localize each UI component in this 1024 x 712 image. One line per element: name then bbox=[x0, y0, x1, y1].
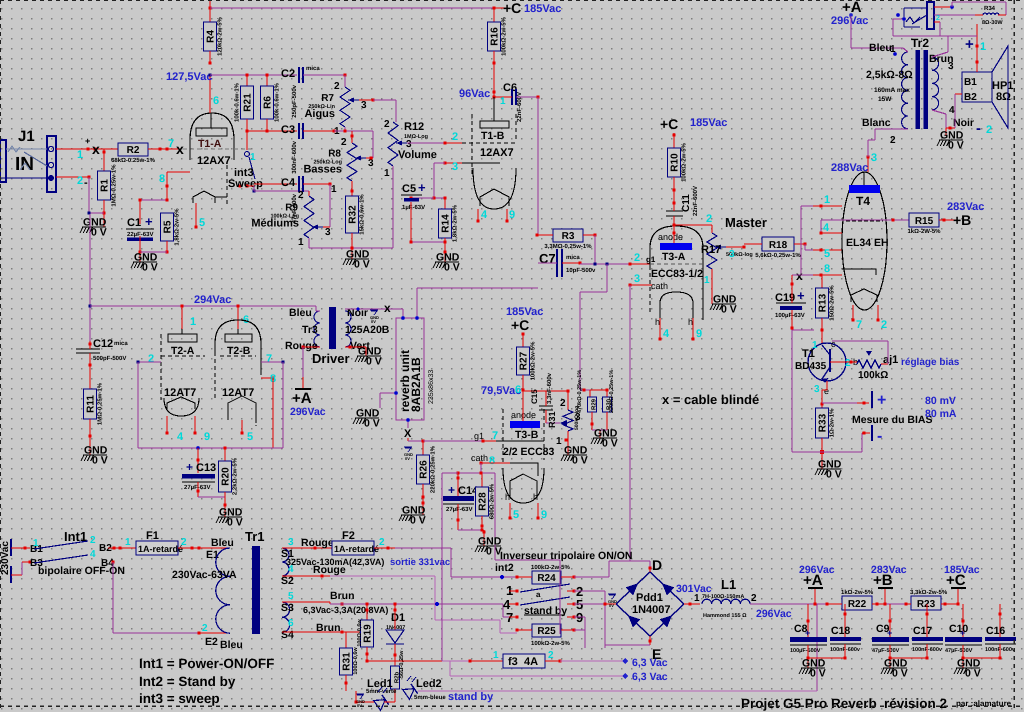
svg-text:L1: L1 bbox=[721, 577, 736, 592]
svg-text:4: 4 bbox=[481, 209, 488, 221]
T3-B heater pins bbox=[509, 503, 511, 518]
wire jack tip bbox=[934, 6, 952, 8]
wire X to reverb in bbox=[402, 309, 404, 318]
svg-text:294Vac: 294Vac bbox=[194, 294, 231, 306]
resistor R16 bbox=[493, 8, 495, 22]
resistor R2b bbox=[391, 666, 400, 689]
wire Brun to speaker bbox=[932, 52, 948, 57]
svg-text:x: x bbox=[176, 141, 184, 157]
wire caps C8 C18 gnd bbox=[808, 657, 845, 659]
winding Tr3-pri bbox=[314, 311, 320, 347]
capacitor C16 bbox=[999, 604, 1001, 637]
svg-text:+A: +A bbox=[292, 390, 312, 407]
svg-text:C18: C18 bbox=[831, 625, 850, 637]
T2-B grid wire pin7 bbox=[261, 361, 283, 363]
svg-text:x: x bbox=[384, 301, 391, 315]
svg-text:2: 2 bbox=[751, 593, 757, 604]
label 6,3 Vac 1 bbox=[622, 658, 628, 664]
svg-text:Rouge: Rouge bbox=[313, 564, 346, 576]
svg-text:100µF-500V: 100µF-500V bbox=[790, 648, 821, 654]
svg-text:3: 3 bbox=[814, 384, 820, 395]
svg-text:15kΩ-0,6w-1%: 15kΩ-0,6w-1% bbox=[359, 194, 366, 235]
svg-text:0 V: 0 V bbox=[965, 668, 981, 680]
svg-text:4: 4 bbox=[823, 222, 830, 234]
svg-text:R16: R16 bbox=[490, 27, 501, 46]
svg-text:R26: R26 bbox=[419, 460, 430, 479]
svg-text:0V: 0V bbox=[609, 603, 614, 608]
resistor R2 bbox=[118, 143, 148, 156]
svg-text:R2: R2 bbox=[127, 145, 140, 156]
wire Rouge to +A bbox=[303, 346, 320, 348]
svg-text:F2: F2 bbox=[342, 530, 355, 542]
svg-text:g1: g1 bbox=[474, 431, 484, 441]
svg-text:stand by: stand by bbox=[448, 691, 494, 703]
svg-text:220kΩ-0,25w-1%: 220kΩ-0,25w-1% bbox=[609, 370, 615, 413]
svg-text:2: 2 bbox=[452, 131, 458, 143]
svg-text:0 V: 0 V bbox=[892, 668, 908, 680]
svg-text:anode: anode bbox=[658, 232, 683, 242]
ground Tr2 bbox=[945, 128, 947, 136]
svg-text:+: + bbox=[85, 136, 90, 146]
wire minus sense bbox=[791, 330, 793, 452]
svg-text:283Vac: 283Vac bbox=[871, 564, 907, 576]
svg-text:R8: R8 bbox=[328, 148, 341, 159]
wire R12 wiper to T1-B bbox=[407, 142, 445, 144]
svg-text:5: 5 bbox=[513, 509, 519, 521]
svg-text:96Vac: 96Vac bbox=[459, 88, 490, 100]
svg-text:0 V: 0 V bbox=[366, 356, 382, 368]
svg-text:22nF-600V: 22nF-600V bbox=[692, 186, 699, 216]
svg-text:Int1 = Power-ON/OFF: Int1 = Power-ON/OFF bbox=[139, 656, 274, 671]
resistor R14 bbox=[439, 209, 452, 238]
wire reverb gnd left bbox=[380, 392, 396, 394]
svg-text:Aigus: Aigus bbox=[304, 108, 335, 120]
svg-text:C7: C7 bbox=[539, 251, 556, 266]
svg-text:C17: C17 bbox=[913, 625, 932, 637]
svg-text:6,3Vac-3,3A(20,8VA): 6,3Vac-3,3A(20,8VA) bbox=[303, 605, 388, 615]
wire B2 to F1 bbox=[108, 547, 136, 549]
svg-text:C4: C4 bbox=[281, 177, 296, 189]
resistor R33 bbox=[816, 408, 829, 438]
svg-text:2: 2 bbox=[334, 81, 340, 92]
wire rail 127V to C2 bbox=[210, 74, 297, 76]
svg-text:C6: C6 bbox=[503, 82, 517, 94]
svg-text:0 V: 0 V bbox=[486, 546, 502, 558]
svg-text:1: 1 bbox=[890, 44, 896, 55]
wire S4 Brun bbox=[282, 631, 342, 633]
speaker HP1 bbox=[962, 72, 992, 102]
svg-text:réglage bias: réglage bias bbox=[901, 357, 960, 368]
resistor R23 bbox=[911, 596, 941, 610]
svg-text:T2-A: T2-A bbox=[171, 345, 195, 357]
wire C3 right bbox=[303, 130, 334, 132]
svg-text:0 V: 0 V bbox=[572, 455, 588, 467]
wire T1-A plate bbox=[209, 75, 211, 113]
wire S1 Rouge to F2 bbox=[282, 547, 332, 549]
svg-text:1: 1 bbox=[331, 184, 337, 195]
svg-text:160mA max: 160mA max bbox=[874, 87, 910, 94]
svg-text:27µF-63V: 27µF-63V bbox=[446, 506, 472, 513]
svg-text:T1-A: T1-A bbox=[198, 138, 222, 150]
svg-text:230Vac-63VA: 230Vac-63VA bbox=[172, 569, 237, 581]
svg-text:0 V: 0 V bbox=[410, 515, 426, 527]
ground gnd-int2 bbox=[477, 545, 501, 547]
wire standby long bbox=[418, 690, 817, 692]
svg-text:Bleu: Bleu bbox=[289, 307, 312, 319]
resistor R34 loop bbox=[951, 2, 953, 7]
triode T3-A bbox=[650, 226, 703, 266]
svg-text:100kΩ-2w-5%: 100kΩ-2w-5% bbox=[531, 564, 570, 571]
svg-text:h: h bbox=[688, 317, 693, 327]
svg-text:+: + bbox=[797, 288, 805, 303]
wire C14 join R28 bbox=[458, 529, 482, 531]
svg-text:1: 1 bbox=[500, 96, 506, 107]
capacitor C17 bbox=[926, 604, 928, 637]
fuse f3 bbox=[367, 660, 442, 662]
wire g3 to cathode bbox=[800, 206, 802, 275]
capacitor C4 bbox=[298, 176, 300, 192]
svg-text:1: 1 bbox=[694, 593, 700, 604]
wire C11 node to Master bbox=[674, 224, 712, 226]
pentode T4 bbox=[842, 172, 887, 310]
svg-text:3: 3 bbox=[729, 249, 735, 260]
svg-text:9: 9 bbox=[696, 328, 702, 340]
capacitor C2 bbox=[298, 67, 300, 83]
T2-A grid wire bbox=[138, 361, 161, 363]
svg-text:-: - bbox=[877, 428, 882, 445]
svg-text:Projet G5 Pro Reverb: Projet G5 Pro Reverb bbox=[741, 696, 877, 711]
svg-text:+C: +C bbox=[511, 317, 529, 333]
svg-text:2,2kΩ-2w-5%: 2,2kΩ-2w-5% bbox=[232, 457, 239, 495]
wire F1 to Tr1 bbox=[178, 547, 230, 549]
svg-text:2: 2 bbox=[181, 537, 187, 548]
resistor R26 bbox=[417, 455, 430, 484]
svg-text:R20: R20 bbox=[221, 467, 232, 486]
ground gnd-C10 bbox=[956, 667, 980, 669]
T1-A grid dashes bbox=[234, 148, 252, 150]
svg-text:R12: R12 bbox=[404, 121, 424, 133]
svg-text:Brun: Brun bbox=[330, 590, 355, 602]
svg-text:R23: R23 bbox=[917, 599, 936, 610]
svg-text:100kΩ-2w-5%: 100kΩ-2w-5% bbox=[531, 640, 570, 647]
svg-text:R25: R25 bbox=[537, 626, 556, 637]
resistor R29 bbox=[580, 389, 590, 391]
resistor R21 bbox=[241, 86, 254, 119]
svg-text:0 V: 0 V bbox=[810, 668, 826, 680]
svg-text:R6: R6 bbox=[263, 96, 274, 109]
svg-text:1: 1 bbox=[190, 316, 196, 328]
T4 cathode line bbox=[842, 269, 876, 275]
resistor R6 bbox=[266, 75, 268, 86]
svg-text:1: 1 bbox=[77, 149, 83, 161]
svg-text:+: + bbox=[805, 628, 810, 638]
svg-text:+B: +B bbox=[953, 212, 971, 228]
svg-text:R5: R5 bbox=[163, 220, 174, 233]
svg-text:1: 1 bbox=[250, 152, 256, 163]
resistor R20 bbox=[224, 448, 226, 461]
wire T4 screen to R15 bbox=[821, 219, 909, 221]
svg-text:g1: g1 bbox=[646, 255, 656, 264]
wire R5 bottom bbox=[166, 241, 168, 252]
wires R29 R30 to gnd bbox=[591, 412, 593, 430]
wire secondary bottom to Noir bbox=[932, 110, 946, 114]
wire int2 to R25 right bbox=[574, 590, 605, 592]
svg-text:8: 8 bbox=[824, 263, 830, 275]
T1-B grid wire bbox=[462, 142, 516, 144]
ground gnd-R33 bbox=[817, 468, 841, 470]
winding Tr2-pri bbox=[902, 52, 908, 129]
ground gnd-R11 bbox=[83, 454, 107, 456]
triode T1-B bbox=[471, 114, 473, 175]
T4 pin4 screen bbox=[820, 220, 822, 233]
potentiometer R9 bbox=[304, 196, 314, 238]
svg-text:470kΩ-0,25w-1%: 470kΩ-0,25w-1% bbox=[577, 370, 583, 413]
svg-text:C13: C13 bbox=[196, 462, 216, 474]
svg-text:Led2: Led2 bbox=[416, 678, 442, 690]
potentiometer R8 bbox=[347, 143, 357, 181]
svg-text:C3: C3 bbox=[281, 124, 295, 136]
svg-text:2: 2 bbox=[379, 537, 385, 548]
svg-text:mica: mica bbox=[566, 254, 580, 261]
svg-text:2: 2 bbox=[90, 535, 96, 546]
speaker + terminal bbox=[976, 24, 978, 72]
svg-text:100k-0.6w-1%: 100k-0.6w-1% bbox=[274, 82, 281, 122]
svg-text:5: 5 bbox=[247, 431, 253, 443]
svg-text:Basses: Basses bbox=[303, 163, 342, 175]
wire caps C9 C17 gnd bbox=[890, 657, 927, 659]
svg-text:+: + bbox=[418, 180, 426, 195]
svg-text:12AX7: 12AX7 bbox=[197, 155, 231, 167]
svg-text:ECC83-1/2: ECC83-1/2 bbox=[651, 268, 703, 280]
resistor R30 bbox=[590, 389, 607, 391]
resistor R20 bbox=[219, 461, 232, 492]
wire aj1 to collector bbox=[881, 363, 888, 365]
svg-text:7: 7 bbox=[168, 138, 174, 150]
svg-text:7: 7 bbox=[492, 430, 498, 442]
node C1 R5 bbox=[140, 199, 167, 201]
svg-text:0 V: 0 V bbox=[948, 140, 964, 152]
svg-text:2: 2 bbox=[548, 650, 554, 661]
svg-text:R33: R33 bbox=[818, 413, 829, 432]
resistor R21 bbox=[246, 75, 248, 86]
triode T2-B bbox=[237, 306, 239, 329]
T1-A side dashed bbox=[226, 165, 228, 205]
wire 294 rail to Bleu bbox=[315, 306, 317, 311]
svg-text:3,3MΩ-0,25w-1%: 3,3MΩ-0,25w-1% bbox=[544, 243, 592, 250]
svg-text:80 mA: 80 mA bbox=[925, 408, 957, 420]
svg-text:1A-retardé: 1A-retardé bbox=[138, 544, 183, 554]
wire reverb bottom out bbox=[407, 420, 409, 428]
svg-text:S2: S2 bbox=[281, 575, 294, 587]
page border bbox=[1013, 0, 1015, 712]
wire 6,3 second bbox=[450, 675, 625, 677]
resistor R25 bbox=[532, 624, 561, 637]
svg-text:12AX7: 12AX7 bbox=[480, 147, 514, 159]
svg-text:Volume: Volume bbox=[398, 149, 437, 161]
svg-text:120kΩ-2w-5%: 120kΩ-2w-5% bbox=[217, 16, 224, 55]
svg-text:1: 1 bbox=[493, 650, 499, 661]
svg-text:100µF-63V: 100µF-63V bbox=[775, 312, 805, 319]
capacitor C3 bbox=[298, 123, 300, 139]
svg-text:100kΩ-2w-5%: 100kΩ-2w-5% bbox=[501, 16, 508, 55]
capacitor C9 bbox=[889, 604, 891, 637]
resistor R18 bbox=[762, 237, 794, 251]
svg-text:2,5kΩ-8Ω: 2,5kΩ-8Ω bbox=[866, 69, 913, 81]
svg-text:S3: S3 bbox=[281, 602, 294, 614]
svg-text:-: - bbox=[976, 120, 981, 137]
svg-text:1: 1 bbox=[298, 237, 304, 248]
svg-text:9: 9 bbox=[204, 431, 210, 443]
ground top of int2 bbox=[483, 530, 485, 546]
svg-text:68kΩ-0.25w-1%: 68kΩ-0.25w-1% bbox=[111, 157, 155, 164]
svg-text:R21: R21 bbox=[243, 93, 254, 112]
svg-text:1: 1 bbox=[812, 340, 818, 351]
T2-B heater pin bbox=[241, 420, 243, 433]
svg-text:Driver: Driver bbox=[312, 351, 350, 366]
svg-text:0V: 0V bbox=[405, 456, 410, 461]
svg-text:6: 6 bbox=[515, 384, 521, 396]
small ground gnd-revb bbox=[404, 446, 412, 448]
svg-text:C11: C11 bbox=[681, 194, 692, 212]
resistor R24 bbox=[532, 571, 561, 584]
svg-text:R32: R32 bbox=[348, 205, 359, 224]
winding R34 bbox=[983, 13, 999, 15]
svg-text:cath: cath bbox=[651, 281, 668, 291]
svg-text:h: h bbox=[655, 317, 660, 327]
svg-text:C5: C5 bbox=[402, 183, 416, 195]
ground gnd-vert bbox=[357, 355, 381, 357]
terminal +B rail bbox=[884, 589, 886, 604]
svg-text:B1: B1 bbox=[964, 77, 977, 88]
svg-text:5: 5 bbox=[824, 248, 830, 260]
svg-text:Hammond 155 Ω: Hammond 155 Ω bbox=[703, 613, 747, 619]
ground gnd-Tr2 bbox=[939, 139, 963, 141]
resistor R28 bbox=[481, 473, 483, 487]
shielded wire into T1-A bbox=[183, 148, 232, 150]
resistor R3 bbox=[553, 229, 583, 242]
svg-text:R27: R27 bbox=[519, 351, 530, 370]
wire J1 tip to R2 bbox=[56, 148, 118, 150]
wire T4 plate top bbox=[867, 157, 869, 172]
ground gnd-R32 bbox=[345, 258, 369, 260]
svg-text:sortie 331vac: sortie 331vac bbox=[390, 557, 450, 568]
svg-text:Tr3: Tr3 bbox=[302, 324, 318, 336]
svg-text:BD435: BD435 bbox=[795, 361, 827, 372]
svg-text:Bleu: Bleu bbox=[211, 537, 234, 549]
svg-text:T4: T4 bbox=[856, 194, 870, 208]
resistor R30 bbox=[603, 397, 612, 412]
svg-text:185Vac: 185Vac bbox=[944, 564, 980, 576]
T3-B cathode wire bbox=[481, 462, 510, 464]
svg-text:Brun: Brun bbox=[316, 622, 341, 634]
svg-text:2: 2 bbox=[341, 137, 347, 148]
svg-text:3: 3 bbox=[288, 537, 294, 548]
svg-text:1: 1 bbox=[384, 168, 390, 179]
wire cathode T1-A pin8 bbox=[167, 171, 190, 173]
svg-text:220kΩ-0,25w-1%: 220kΩ-0,25w-1% bbox=[430, 445, 437, 493]
wire T3-A cath down bbox=[629, 285, 631, 561]
svg-text:3: 3 bbox=[361, 100, 367, 111]
svg-text:0 V: 0 V bbox=[826, 469, 842, 481]
svg-text:0 V: 0 V bbox=[91, 227, 107, 239]
svg-text:x: x bbox=[796, 269, 803, 283]
svg-text:2: 2 bbox=[890, 135, 896, 146]
resistor R15 bbox=[909, 213, 939, 227]
svg-text:8: 8 bbox=[489, 455, 495, 467]
svg-text:a: a bbox=[536, 590, 541, 599]
svg-text:C10: C10 bbox=[949, 623, 968, 635]
wire grid leak down bbox=[606, 264, 608, 292]
svg-text:R17: R17 bbox=[701, 244, 721, 256]
svg-text:R11: R11 bbox=[86, 395, 97, 413]
svg-text:0V: 0V bbox=[371, 319, 376, 324]
svg-text:R9: R9 bbox=[285, 203, 298, 214]
svg-text:296Vac: 296Vac bbox=[756, 608, 792, 620]
svg-text:1: 1 bbox=[125, 537, 131, 548]
svg-text:2: 2 bbox=[148, 353, 154, 365]
svg-text:5mm-bleue: 5mm-bleue bbox=[414, 694, 446, 701]
svg-text:D: D bbox=[652, 557, 662, 573]
triode T3-B bbox=[502, 409, 504, 465]
svg-text:2/2 ECC83: 2/2 ECC83 bbox=[503, 446, 555, 458]
svg-text:47µF-500V: 47µF-500V bbox=[872, 648, 900, 654]
wire to T3-A grid bbox=[580, 263, 630, 265]
svg-text:3: 3 bbox=[325, 227, 331, 238]
terminal +A rail bbox=[814, 589, 816, 604]
svg-text:3: 3 bbox=[452, 161, 458, 173]
wire cath column bbox=[494, 473, 496, 545]
svg-text:+C: +C bbox=[660, 116, 678, 132]
winding L1 bbox=[702, 599, 750, 604]
svg-text:R7: R7 bbox=[321, 93, 334, 104]
svg-text:0 V: 0 V bbox=[92, 455, 108, 467]
node 294Vac rail bbox=[89, 305, 92, 308]
potentiometer R31 tone bbox=[567, 391, 569, 410]
svg-text:5,6kΩ-0,25w-1%: 5,6kΩ-0,25w-1% bbox=[755, 252, 801, 259]
resistor R32 bbox=[346, 196, 359, 233]
resistor R26 bbox=[422, 441, 424, 455]
svg-text:Noir: Noir bbox=[953, 117, 974, 129]
svg-text:Rouge: Rouge bbox=[301, 537, 334, 549]
svg-text:2: 2 bbox=[298, 190, 304, 201]
winding Tr3-sec bbox=[345, 311, 351, 347]
svg-text:C16: C16 bbox=[986, 625, 1005, 637]
svg-text:100kΩ: 100kΩ bbox=[858, 370, 888, 381]
svg-text:127,5Vac: 127,5Vac bbox=[166, 71, 213, 83]
svg-text:9: 9 bbox=[509, 209, 515, 221]
resistor R2b bbox=[394, 644, 396, 666]
svg-text:100kΩ-2w-5%: 100kΩ-2w-5% bbox=[530, 341, 537, 380]
svg-text:6: 6 bbox=[213, 95, 219, 107]
svg-text:2: 2 bbox=[384, 119, 390, 130]
resistor R1 bbox=[98, 171, 111, 200]
trimmer aj1 bbox=[847, 361, 857, 363]
wire caps C10 C16 gnd bbox=[963, 657, 1000, 659]
svg-text:6: 6 bbox=[288, 618, 294, 629]
svg-text:0 V: 0 V bbox=[364, 418, 380, 430]
potentiometer R7 bbox=[340, 87, 350, 127]
svg-text:Int2 = Stand by: Int2 = Stand by bbox=[139, 674, 236, 689]
wire J1 sleeve bbox=[56, 176, 89, 178]
svg-text:3: 3 bbox=[368, 158, 374, 169]
svg-text:100k-0.6w-1%: 100k-0.6w-1% bbox=[234, 82, 241, 122]
svg-text:2: 2 bbox=[202, 623, 208, 634]
svg-text:4: 4 bbox=[663, 328, 670, 340]
wire C2 to R7 bbox=[303, 74, 345, 76]
svg-text:7: 7 bbox=[266, 353, 272, 365]
wire cath node C14 R28 bbox=[480, 463, 482, 473]
svg-text:f3: f3 bbox=[508, 656, 518, 668]
